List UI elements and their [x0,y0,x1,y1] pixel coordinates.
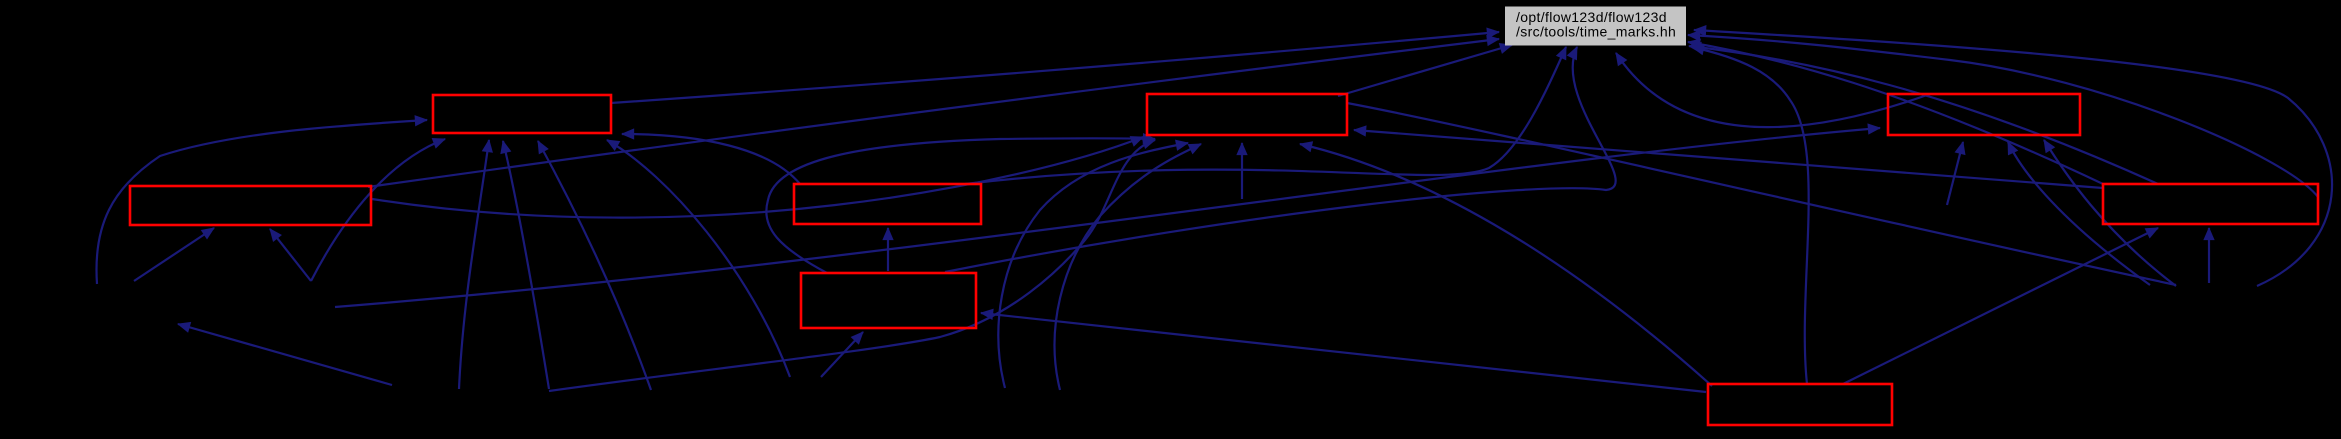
wire B6 right around to root [1688,35,2318,197]
wire B7 around left of B5 to B2 [766,138,1155,273]
wire node S2 to B1 [459,140,489,389]
wire node IE to B3 bottom 2 [2008,142,2150,285]
wire B5 to root [965,47,1566,184]
wire node IE around right to root [1694,30,2332,286]
wire B1 to root [611,32,1499,103]
box B5 [794,184,981,224]
wire node IF2 to B2 [1055,144,1201,390]
wire node ID to B1 [607,140,790,377]
wire node IE to B6 [2208,228,2210,283]
wire B2 to root [1338,45,1512,96]
root node /opt/flow123d/flow123d /src/tools/time_marks.hh [1505,7,1686,46]
wire node IA to B4 left arrow [134,228,214,281]
wire B6 to B2 right [1354,130,2103,188]
box B2 [1147,94,1347,135]
wire node IA to B3 [335,128,1880,307]
box B4 [130,186,371,225]
wire node IF to B2 [998,143,1188,388]
svg-text:/src/tools/time_marks.hh: /src/tools/time_marks.hh [1516,24,1676,40]
wire B8 to root [1692,47,1809,384]
wire B3 to root [1616,53,1930,127]
box B1 [433,95,611,133]
wire B4 to root [368,39,1499,187]
wire B7 to B5 [887,228,889,271]
wire node IC around B7 to B2 [549,140,1155,391]
wire B6 topleft to root [1688,42,2103,184]
wire node ID to B7 [821,332,863,377]
wire B5 to B1 corner [622,134,800,184]
wire node IE to B3 bottom 3 [2044,140,2176,286]
wire B4 to B2 [372,137,1143,218]
wire B6 top to root [1689,46,2158,184]
wire vertical to B2 [1241,143,1243,199]
wire B8 to B7 [981,313,1706,392]
wire to B3 bottom 1 [1947,142,1963,205]
box B7 [801,273,976,328]
box B3 [1888,94,2080,135]
wire node S1 to IA [178,324,392,385]
box B8 [1708,384,1892,425]
wire B7 to root [945,47,1616,272]
wire node IA to B4 right arrow [270,229,311,281]
wire B2 to node IE [1347,103,2176,285]
wire node IC2 to B1 [538,141,651,390]
box B6 [2103,184,2318,224]
wire B8 to B2 [1300,144,1712,386]
wire node IA top to B1 [311,139,445,281]
wire B8 to B6 [1843,228,2158,384]
wire node IC to B1 [503,141,549,389]
wire node IA around left to B1 [96,120,427,284]
svg-text:/opt/flow123d/flow123d: /opt/flow123d/flow123d [1516,9,1667,25]
